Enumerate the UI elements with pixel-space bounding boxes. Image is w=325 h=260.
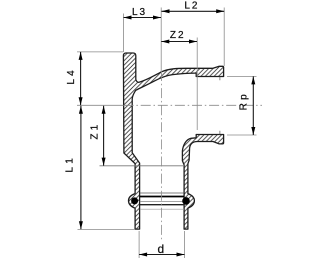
extension line Rp bottom: [227, 134, 257, 136]
horizontal axis extension line: [77, 104, 123, 106]
extension line Z2 right (thread shoulder): [196, 38, 198, 131]
thread relief lines at socket mouth: [219, 77, 221, 135]
svg-text:L1: L1: [65, 155, 76, 173]
svg-text:Z2: Z2: [170, 30, 186, 41]
extension line d right: [184, 231, 186, 258]
horizontal centerline (dash-dot): [124, 104, 262, 106]
dimension L2: [162, 0, 225, 13]
svg-text:L2: L2: [184, 0, 199, 11]
extension line L4 top: [77, 51, 123, 53]
extension line L2 right: [223, 8, 225, 67]
extension line axis top (L3 right / L2 left / Z2 left): [160, 8, 162, 72]
press bead bore contour lines and O-ring silhouette: [140, 193, 184, 209]
fitting body section left/top wall (hatched): [123, 53, 223, 229]
dimension Z2: [161, 30, 197, 44]
dimension L1: [65, 106, 83, 229]
pipe stop line / Z1 extension: [100, 165, 185, 167]
dimension d: [139, 242, 184, 256]
extension line L3 left: [123, 14, 125, 53]
svg-text:Z1: Z1: [89, 122, 100, 140]
dimension L3: [124, 7, 162, 20]
svg-text:d: d: [158, 242, 165, 256]
dimension Z1: [89, 106, 105, 166]
O-ring right (section dot): [182, 197, 190, 205]
vertical centerline (dash-dot): [160, 71, 162, 242]
fitting body section right/bottom wall (hatched): [182, 135, 223, 230]
extension line L1 bottom: [78, 228, 136, 230]
dimension Rp: [238, 76, 255, 135]
extension line Rp top: [227, 75, 257, 77]
extension line d left: [138, 231, 140, 258]
O-ring left (section dot): [131, 197, 138, 204]
svg-text:L3: L3: [132, 7, 147, 18]
svg-text:Rp: Rp: [238, 91, 249, 110]
dimension L4: [66, 52, 83, 105]
svg-text:L4: L4: [66, 67, 77, 85]
